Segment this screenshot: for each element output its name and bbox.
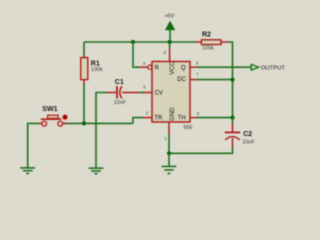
svg-text:CV: CV [155,91,163,97]
wire: ground stem [168,153,170,166]
pin 3 Q stub [190,61,199,68]
svg-text:TR: TR [154,115,163,121]
wire: Q to OUTPUT [196,66,251,68]
ground (C1) [89,168,104,174]
node: junction +5V rail / VCC [168,40,172,44]
pin 4 R bubble and stub [139,61,151,69]
svg-text:100k: 100k [91,67,103,73]
wire: rail down to R1 [83,42,85,56]
svg-text:C2: C2 [243,131,252,138]
svg-text:R: R [155,66,160,72]
wire: TR branch riser [133,118,144,124]
wire: R2 to DC/TH column [228,42,233,118]
svg-text:+5V: +5V [165,13,175,19]
op 555 timer U1 body [152,61,193,131]
svg-text:10uF: 10uF [242,139,255,145]
ground (SW1) [20,168,35,174]
pin 7 DC stub [190,72,199,80]
pin 6 TH stub [190,111,200,118]
wire: GND pin to ground rail [168,134,170,153]
svg-text:DC: DC [177,77,186,83]
node: junction DC / column [230,78,234,82]
pin 5 CV stub [143,84,152,92]
wire: R1 bottom to SW1 node [83,84,85,123]
wire: TH pin to column [196,117,232,119]
node: junction +5V rail / reset branch [131,40,135,44]
wire: SW1 left to ground [28,123,39,167]
switch SW1 [39,106,68,126]
svg-text:R2: R2 [202,31,211,38]
wire: C1 right to CV pin [139,92,143,94]
pin 2 TR stub [144,111,153,118]
node: junction TH / C2 [230,116,234,120]
wire: +5V top rail [84,41,196,43]
terminal OUTPUT [251,64,285,71]
wire: SW1 row to TR branch [63,122,133,124]
svg-text:555: 555 [183,125,192,131]
wire: C1 left to ground (crosses SW1 wire) [96,93,108,169]
wire: +5V junction to VCC stub [169,42,171,49]
node: junction GND / C2 ground rail [167,151,171,155]
power +5V symbol [165,13,175,42]
node: junction R1 / SW1 / TR [82,121,86,125]
svg-text:100k: 100k [202,46,214,52]
resistor R2 [196,31,228,51]
svg-text:10nF: 10nF [114,100,127,106]
svg-text:C1: C1 [115,79,124,86]
svg-text:Q: Q [181,66,186,72]
wire: DC pin to column [196,79,232,81]
ground (555 / C2) [162,166,177,173]
resistor R1 [81,56,103,85]
pin 8 VCC stub [164,48,170,61]
wire: C2 bottom to ground rail [169,147,233,153]
wire: junction to C2 top [232,118,234,124]
svg-text:SW1: SW1 [42,106,57,113]
capacitor C1 [107,79,139,106]
svg-text:OUTPUT: OUTPUT [261,65,286,71]
wire: reset branch to pin 4 [133,42,140,67]
capacitor C2 [225,123,256,147]
svg-text:VCC: VCC [170,61,176,74]
pin 1 GND stub [164,122,169,141]
svg-text:TH: TH [178,115,186,121]
svg-text:GND: GND [170,107,176,121]
